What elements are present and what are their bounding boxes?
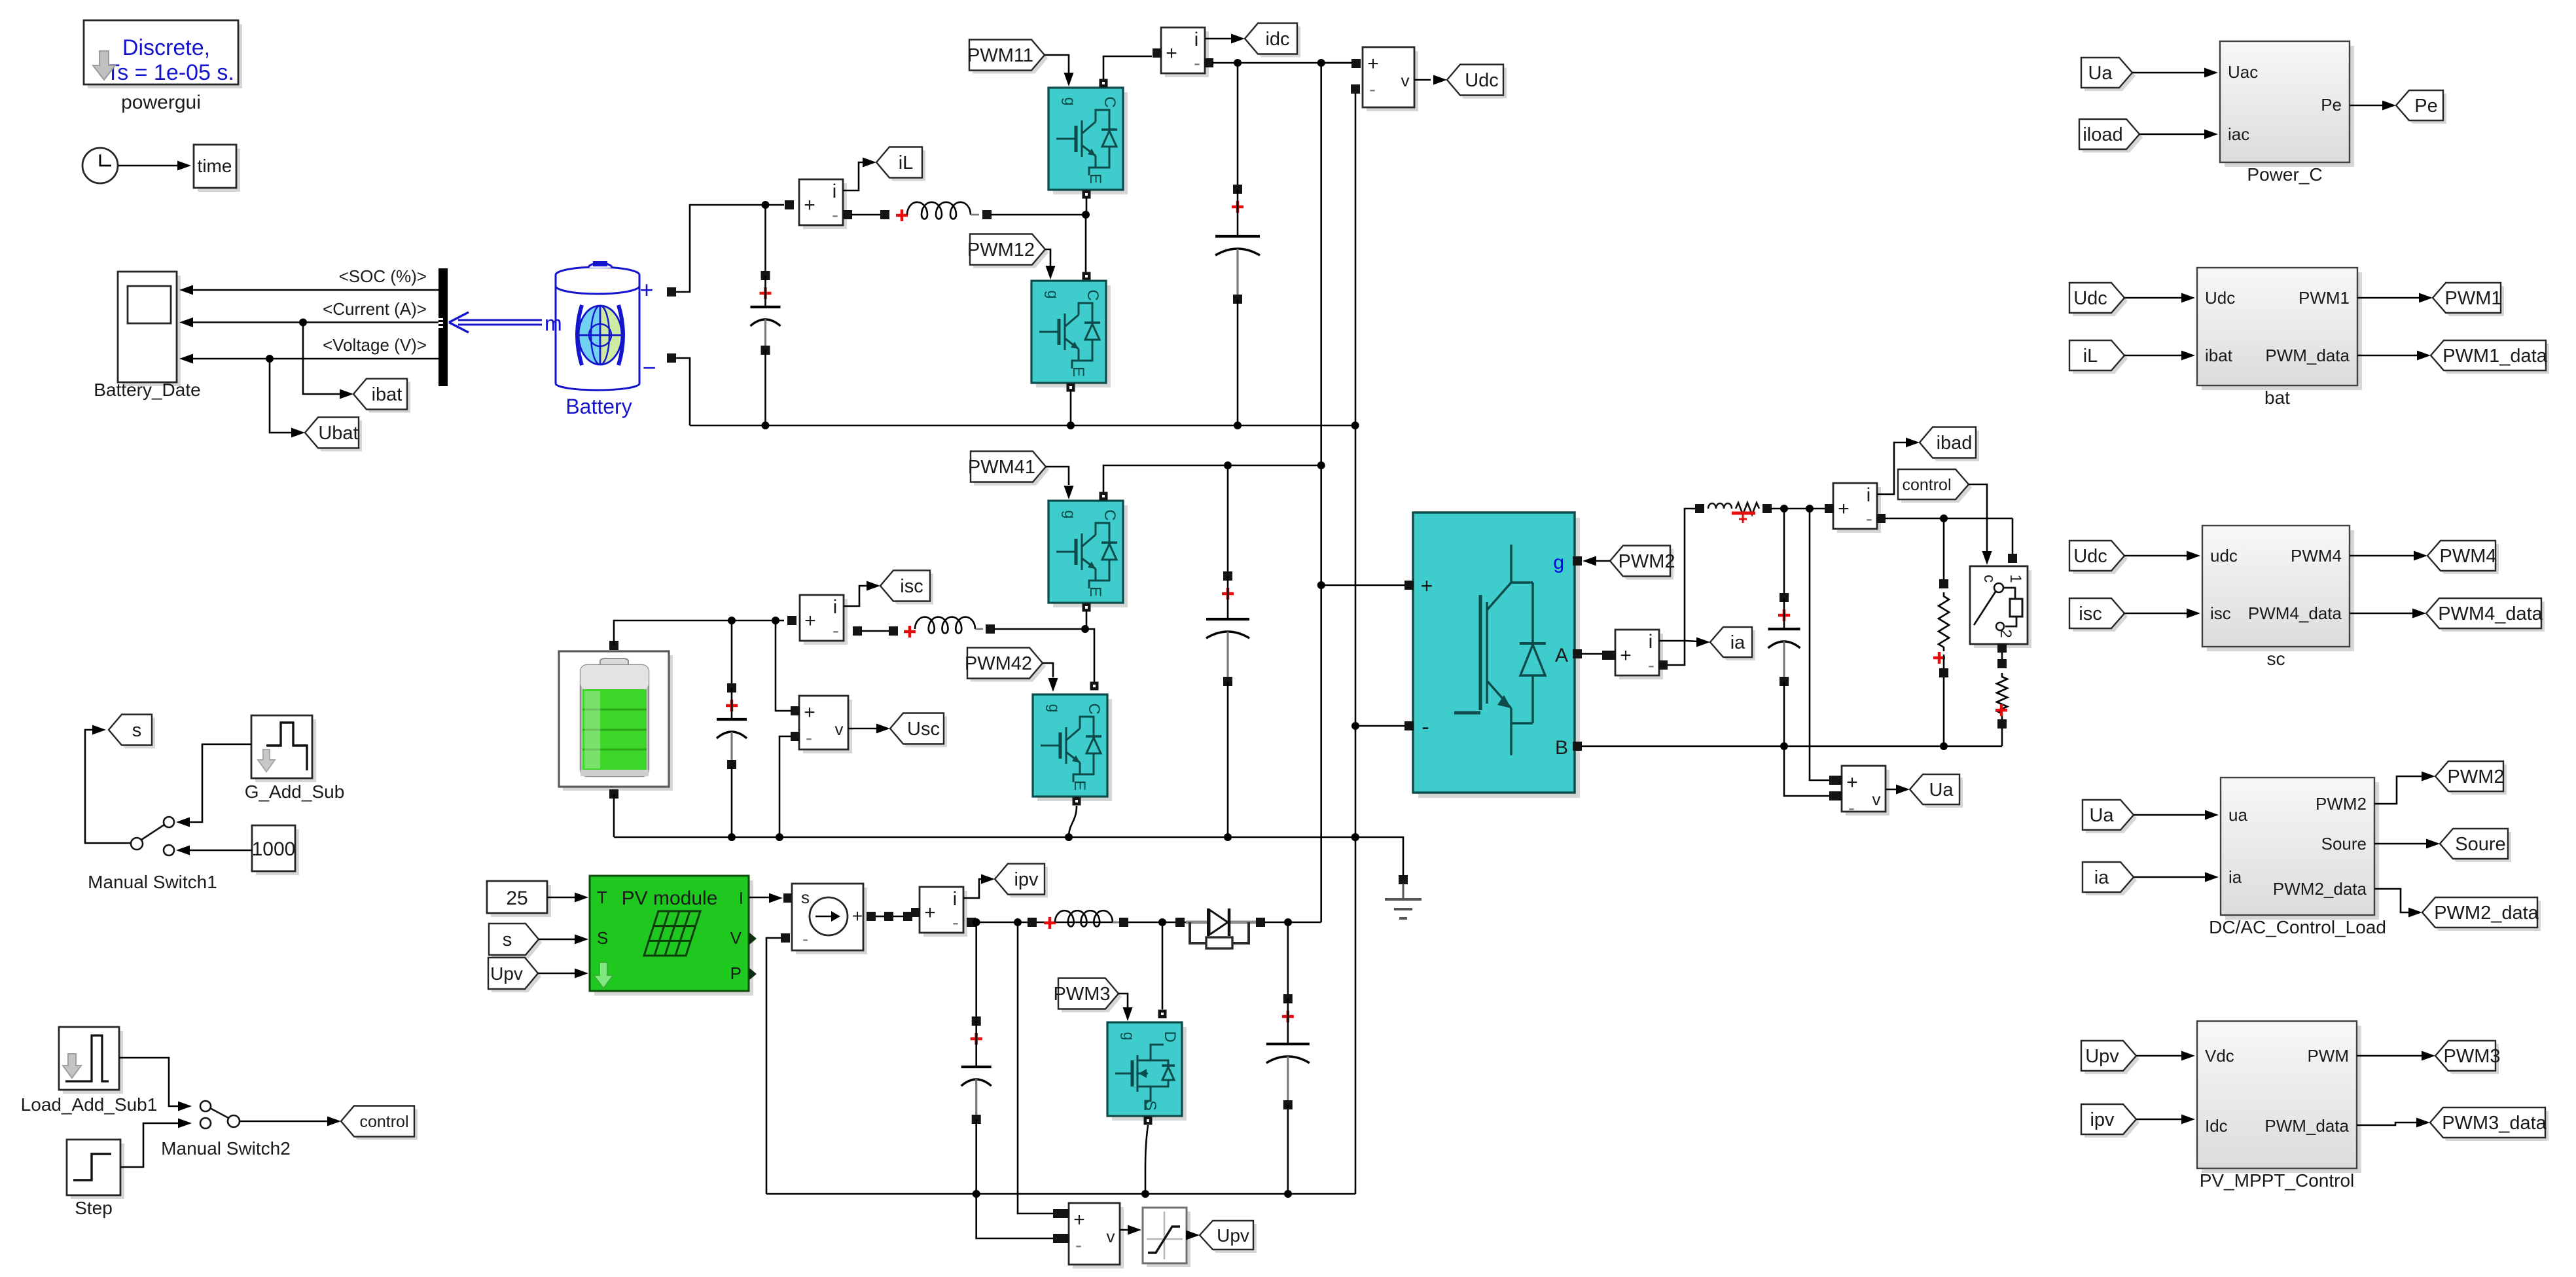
- subsystem sc: [2207, 530, 2354, 651]
- wire to Upv meas +: [1018, 922, 1054, 1214]
- wire source+ to ipv: [876, 916, 885, 918]
- from tag ipv: [998, 867, 1048, 898]
- from tag PWM12: [973, 238, 1048, 268]
- block Step: [71, 1143, 124, 1199]
- wire PWM3 out: [2357, 1055, 2424, 1057]
- svg-text:PWM4_data: PWM4_data: [2248, 603, 2342, 623]
- wire PWM2_data out: [2374, 889, 2411, 912]
- svg-text:PWM1: PWM1: [2299, 288, 2350, 308]
- IGBT Q2 (PWM12): [1036, 285, 1111, 387]
- from tag s: [492, 927, 542, 958]
- svg-text:PWM3: PWM3: [2444, 1046, 2501, 1067]
- svg-text:+: +: [1421, 574, 1433, 598]
- svg-text:+: +: [804, 702, 815, 723]
- capacitor C4 dc link 2: [1227, 465, 1229, 576]
- wire PWM42 gate: [1043, 663, 1053, 677]
- wire ia signal: [1659, 641, 1698, 641]
- port Q3 S: [1144, 1117, 1153, 1125]
- port Q42 C: [1090, 682, 1099, 691]
- wire L2 to midpoint2: [994, 628, 1085, 630]
- svg-text:PWM11: PWM11: [967, 45, 1033, 66]
- goto tag Pe: [2399, 94, 2446, 124]
- from tag iL (bat in): [2073, 344, 2128, 374]
- series RL load element: [1708, 503, 1732, 509]
- wire Q1 C to idc: [1103, 56, 1152, 79]
- svg-text:-: -: [1194, 52, 1200, 74]
- current source - port: [781, 933, 790, 943]
- svg-text:+: +: [852, 906, 863, 926]
- svg-text:-: -: [802, 929, 808, 949]
- goto tag Udc: [1450, 68, 1507, 99]
- pv bottom rail: [766, 1193, 1355, 1195]
- from tag PWM2: [1613, 549, 1673, 580]
- from tag PWM3: [1062, 982, 1122, 1013]
- svg-text:iL: iL: [899, 153, 914, 173]
- svg-text:ia: ia: [2094, 867, 2109, 888]
- inverter block (IGBT half-bridge): [1418, 518, 1580, 798]
- goto tag control: [344, 1109, 418, 1140]
- subsystem Power_C: [2225, 46, 2354, 167]
- svg-text:s: s: [503, 929, 512, 950]
- port Q2 C: [1082, 272, 1091, 281]
- current meas isc: [804, 599, 848, 645]
- svg-text:C: C: [1101, 509, 1118, 520]
- capacitor C6 pv output: [1287, 922, 1289, 999]
- diode D1: [1175, 918, 1185, 927]
- svg-text:-: -: [1369, 79, 1376, 100]
- goto tag Soure: [2443, 832, 2511, 862]
- wire PV I to source: [749, 897, 772, 898]
- voltage meas Ua: [1846, 770, 1889, 816]
- svg-text:25: 25: [506, 888, 528, 909]
- from tag Upv (mppt in): [2084, 1044, 2139, 1074]
- svg-text:1000: 1000: [252, 838, 296, 860]
- svg-text:PV module: PV module: [622, 888, 718, 909]
- svg-text:Discrete,: Discrete,: [122, 35, 210, 60]
- from tag Udc (bat in): [2073, 286, 2128, 316]
- wire Current to scope: [190, 321, 438, 323]
- svg-text:Usc: Usc: [907, 719, 940, 740]
- subsystem bat: [2202, 272, 2362, 390]
- svg-text:Udc: Udc: [2073, 546, 2107, 567]
- svg-text:G_Add_Sub: G_Add_Sub: [245, 782, 345, 802]
- capacitor C1 battery side: [764, 205, 766, 276]
- wire ipv to mppt: [2136, 1119, 2184, 1121]
- svg-text:bat: bat: [2264, 387, 2290, 408]
- wire battery+ to iL meas: [676, 205, 784, 292]
- block G_Add_Sub: [255, 719, 316, 782]
- port iload in: [1825, 504, 1834, 513]
- ground symbol: [1403, 884, 1404, 898]
- from tag ipv (mppt in): [2084, 1107, 2139, 1138]
- manual switch2: [200, 1101, 211, 1111]
- svg-text:A: A: [1555, 645, 1568, 666]
- svg-text:PWM2_data: PWM2_data: [2434, 903, 2539, 924]
- svg-text:PWM12: PWM12: [967, 240, 1035, 261]
- goto tag Ua: [1913, 778, 1963, 808]
- svg-text:i: i: [833, 596, 838, 618]
- wire Q2 E to bus1: [1070, 391, 1072, 425]
- svg-text:Manual Switch1: Manual Switch1: [88, 872, 217, 892]
- svg-text:+: +: [924, 902, 936, 924]
- wire Upv v to saturation: [1120, 1229, 1131, 1231]
- inductor L2: [915, 617, 975, 634]
- wire iload to iac: [2139, 134, 2207, 135]
- wire 25 to T: [547, 897, 577, 899]
- svg-text:v: v: [835, 719, 844, 739]
- wire midpoint to Q2 C: [1085, 215, 1087, 272]
- wire ipv signal: [963, 879, 982, 898]
- wire Q3 S to pv bottom rail: [1145, 1125, 1148, 1194]
- svg-text:PWM42: PWM42: [965, 653, 1032, 674]
- wire rail2 to Usc+: [776, 621, 791, 711]
- resistor R2 switched: [2001, 652, 2003, 660]
- IGBT Q4 (PWM41): [1053, 505, 1128, 607]
- svg-text:c: c: [1980, 575, 1998, 583]
- current source + port: [867, 912, 876, 921]
- svg-text:ia: ia: [2228, 867, 2242, 887]
- goto tag PWM2 (out): [2439, 764, 2507, 795]
- wire PWM2 out: [2374, 776, 2424, 804]
- svg-text:C: C: [1085, 703, 1103, 714]
- inverter g port: [1573, 556, 1582, 566]
- svg-text:PWM1: PWM1: [2445, 288, 2502, 309]
- wire rail to inverter +: [1321, 585, 1405, 586]
- svg-text:Udc: Udc: [2073, 288, 2107, 309]
- wire saturation to Upv tag: [1187, 1234, 1191, 1236]
- from tag Ua (dcac in): [2086, 803, 2137, 833]
- bus selector bar: [438, 268, 448, 386]
- svg-text:+: +: [804, 194, 815, 216]
- svg-text:m: m: [545, 312, 562, 335]
- svg-text:PWM4: PWM4: [2440, 546, 2497, 567]
- svg-text:V: V: [730, 928, 742, 948]
- wire Voltage to scope: [190, 358, 438, 360]
- wire Udc to sc: [2124, 555, 2189, 557]
- svg-text:Ubat: Ubat: [318, 423, 358, 444]
- wire Step to switch2: [120, 1123, 181, 1167]
- svg-text:ibat: ibat: [2205, 346, 2233, 365]
- wire midpoint2 to Q42 C: [1085, 629, 1094, 682]
- svg-text:iload: iload: [2083, 124, 2122, 145]
- svg-text:Battery_Date: Battery_Date: [94, 380, 200, 400]
- goto tag PWM2_data: [2425, 901, 2541, 931]
- svg-text:v: v: [1401, 71, 1410, 90]
- svg-text:T: T: [597, 888, 607, 907]
- from tag PWM41: [974, 455, 1049, 486]
- wire switch1 to s tag: [85, 730, 130, 843]
- svg-text:iac: iac: [2228, 124, 2249, 144]
- goto tag Upv: [1203, 1224, 1257, 1253]
- block Load_Add_Sub1: [63, 1031, 123, 1094]
- subsystem DC/AC_Control_Load: [2225, 782, 2379, 920]
- svg-text:−: −: [642, 354, 656, 381]
- from tag PWM42: [971, 651, 1046, 682]
- breaker out port: [1997, 643, 2007, 653]
- from tag control (load): [1901, 473, 1972, 503]
- wire isc- to inductor2: [861, 630, 893, 632]
- svg-text:i: i: [832, 181, 837, 202]
- wire 1000 to switch1: [188, 850, 252, 852]
- svg-text:+: +: [1073, 1209, 1085, 1231]
- wire Usc- to bus2: [779, 736, 791, 837]
- svg-text:+: +: [639, 276, 653, 303]
- inverter B port: [1573, 742, 1582, 751]
- wire iL signal: [843, 162, 864, 190]
- supercap block: [563, 655, 673, 791]
- svg-text:+: +: [1367, 53, 1379, 75]
- svg-text:-: -: [1422, 715, 1429, 740]
- wire LoadAddSub to switch2: [119, 1058, 181, 1106]
- svg-text:<SOC (%)>: <SOC (%)>: [339, 266, 427, 286]
- negative rail vertical right: [1355, 425, 1357, 1194]
- svg-text:ipv: ipv: [1014, 869, 1039, 890]
- svg-text:PWM2: PWM2: [2448, 766, 2505, 787]
- wire idc signal: [1205, 38, 1234, 40]
- current meas ia: [1619, 634, 1663, 679]
- wire rail to inverter -: [1355, 725, 1405, 727]
- powergui block: [88, 24, 242, 88]
- svg-text:I: I: [739, 888, 743, 908]
- wire Upv to mppt: [2136, 1055, 2184, 1057]
- svg-text:time: time: [198, 156, 232, 176]
- svg-text:i: i: [1649, 631, 1653, 653]
- current meas ipv: [923, 891, 967, 937]
- svg-text:Ts = 1e-05 s.: Ts = 1e-05 s.: [106, 60, 234, 85]
- svg-text:Vdc: Vdc: [2205, 1046, 2234, 1066]
- svg-text:g: g: [1045, 291, 1062, 299]
- from tag isc: [884, 574, 933, 605]
- svg-text:PWM2_data: PWM2_data: [2273, 879, 2367, 899]
- port Q1 E: [1082, 190, 1091, 199]
- red plus L3: [1044, 917, 1056, 929]
- svg-text:isc: isc: [2079, 603, 2102, 624]
- svg-text:B: B: [1555, 737, 1568, 759]
- svg-text:Idc: Idc: [2205, 1116, 2228, 1136]
- manual switch1: [131, 838, 143, 850]
- resistor R load: [1943, 518, 1945, 580]
- wire isc to sc: [2124, 613, 2189, 615]
- wire to Ua+: [1810, 509, 1830, 780]
- svg-text:+: +: [1166, 43, 1177, 64]
- MOSFET Q3 (PWM3): [1112, 1027, 1187, 1121]
- svg-text:g: g: [1062, 511, 1079, 519]
- svg-text:ua: ua: [2228, 805, 2247, 825]
- svg-text:i: i: [1867, 484, 1871, 506]
- svg-text:v: v: [1872, 789, 1881, 809]
- wire Q1 E to midpoint: [1086, 198, 1088, 215]
- wire Q4 C to rail 711: [1103, 465, 1321, 492]
- svg-text:-: -: [806, 727, 812, 749]
- block constant 1000: [256, 829, 299, 875]
- svg-text:isc: isc: [2210, 603, 2231, 623]
- svg-text:Ua: Ua: [2089, 805, 2114, 826]
- wire ia to dcac: [2134, 876, 2208, 878]
- svg-text:ibad: ibad: [1937, 433, 1973, 454]
- svg-text:s: s: [801, 888, 810, 907]
- svg-text:PWM1_data: PWM1_data: [2442, 346, 2547, 367]
- svg-text:<Voltage (V)>: <Voltage (V)>: [323, 335, 427, 355]
- IGBT Q1 (PWM11): [1053, 92, 1128, 194]
- svg-text:-: -: [1848, 797, 1855, 819]
- clock block: [82, 148, 118, 183]
- svg-text:Ua: Ua: [2088, 63, 2113, 84]
- svg-text:D: D: [1161, 1031, 1179, 1042]
- svg-text:PWM3_data: PWM3_data: [2442, 1113, 2547, 1134]
- capacitor C3 supercap side: [731, 621, 733, 688]
- svg-text:C: C: [1101, 96, 1118, 107]
- goto tag PWM3_data: [2433, 1111, 2549, 1141]
- svg-text:PWM4: PWM4: [2291, 546, 2342, 566]
- goto tag PWM1: [2436, 286, 2504, 316]
- wire idc- to rail: [1213, 62, 1352, 64]
- port Q42 E: [1073, 797, 1081, 806]
- wire PWM2 to g: [1592, 560, 1610, 562]
- svg-text:Upv: Upv: [2085, 1046, 2119, 1067]
- capacitor C7 ac filter: [1783, 509, 1785, 598]
- wire B to Ua-: [1784, 746, 1830, 796]
- svg-text:-: -: [952, 912, 959, 933]
- supercap top port: [609, 641, 618, 650]
- goto tag ibad: [1923, 431, 1979, 461]
- battery m signal: [458, 319, 542, 321]
- svg-text:P: P: [730, 963, 742, 983]
- wire PWM1 out: [2357, 297, 2422, 299]
- wire PWM4_data out: [2350, 613, 2415, 615]
- from tag PWM11: [973, 43, 1048, 74]
- svg-text:s: s: [132, 720, 142, 741]
- wire PWM11 gate: [1045, 55, 1069, 73]
- svg-text:Manual Switch2: Manual Switch2: [161, 1138, 291, 1159]
- svg-text:Power_C: Power_C: [2247, 164, 2322, 185]
- wire iL- to inductor: [851, 214, 885, 216]
- svg-text:<Current (A)>: <Current (A)>: [323, 299, 427, 319]
- wire Ua to dcac: [2134, 814, 2208, 816]
- wire PWM41 gate: [1046, 467, 1069, 485]
- svg-text:-: -: [832, 620, 839, 641]
- battery + port: [667, 287, 676, 297]
- wire iL to bat: [2124, 355, 2184, 357]
- bus2 negative rail: [614, 836, 1355, 838]
- goto tag s: [112, 718, 155, 749]
- svg-text:PWM: PWM: [2307, 1046, 2349, 1066]
- svg-text:ia: ia: [1730, 632, 1745, 653]
- svg-text:ibat: ibat: [372, 384, 402, 405]
- goto tag PWM3: [2439, 1044, 2499, 1074]
- svg-text:Load_Add_Sub1: Load_Add_Sub1: [21, 1094, 158, 1115]
- from tag Ua (PowerC in): [2084, 61, 2136, 91]
- wire battery- to bus1: [676, 358, 690, 425]
- svg-text:udc: udc: [2210, 546, 2238, 566]
- goto tag PWM1_data: [2434, 344, 2549, 374]
- svg-text:sc: sc: [2267, 649, 2285, 669]
- current meas iL: [803, 183, 847, 229]
- svg-text:DC/AC_Control_Load: DC/AC_Control_Load: [2209, 917, 2386, 937]
- wire Pe out: [2350, 105, 2385, 107]
- goto tag ia: [1713, 630, 1755, 660]
- from tag ia (dcac in): [2086, 865, 2137, 895]
- svg-text:PWM2: PWM2: [1619, 551, 1675, 572]
- wire PWM4 out: [2350, 555, 2416, 557]
- subsystem PV_MPPT_Control: [2202, 1026, 2361, 1173]
- port RL left: [1695, 504, 1704, 513]
- from tag Udc (sc in): [2073, 544, 2128, 574]
- svg-text:g: g: [1046, 704, 1063, 713]
- port Q4 C: [1100, 492, 1108, 501]
- wire PWM3 gate: [1118, 994, 1128, 1008]
- svg-text:-: -: [832, 204, 838, 226]
- svg-text:PWM4_data: PWM4_data: [2438, 603, 2543, 624]
- voltage meas Udc: [1367, 51, 1418, 111]
- wire clock to time: [118, 165, 186, 167]
- svg-text:control: control: [359, 1113, 408, 1131]
- svg-text:Pe: Pe: [2321, 95, 2342, 115]
- svg-text:iL: iL: [2083, 346, 2098, 367]
- wire L1 to midpoint: [991, 214, 1086, 216]
- svg-text:v: v: [1107, 1227, 1115, 1246]
- scope Battery_Date: [122, 276, 181, 386]
- svg-text:PWM41: PWM41: [968, 457, 1035, 478]
- wire Ua signal: [1886, 789, 1897, 791]
- svg-text:Upv: Upv: [1217, 1225, 1249, 1246]
- wire Upv to P-in: [538, 973, 577, 975]
- goto tag Ubat: [308, 421, 362, 452]
- svg-text:isc: isc: [900, 576, 923, 597]
- bus1 negative rail: [690, 425, 1355, 427]
- from tag isc (sc in): [2073, 602, 2128, 632]
- wire Ua to Uac: [2132, 72, 2207, 74]
- B phase line: [1581, 746, 2002, 747]
- svg-text:g: g: [1553, 552, 1564, 573]
- from tag Upv (input): [492, 961, 541, 992]
- svg-text:-: -: [1866, 508, 1872, 530]
- battery block icon: [556, 275, 639, 390]
- current meas idc: [1165, 31, 1209, 77]
- svg-text:-: -: [1075, 1234, 1082, 1256]
- inverter A port: [1573, 649, 1582, 658]
- svg-text:PWM_data: PWM_data: [2265, 346, 2350, 365]
- wire G_Add_Sub to switch1: [188, 744, 251, 822]
- supercap bottom port: [609, 789, 618, 799]
- wire control to breaker: [1969, 484, 1987, 553]
- svg-text:PWM_data: PWM_data: [2264, 1116, 2349, 1136]
- svg-text:Upv: Upv: [490, 963, 523, 984]
- constant block 25: [491, 885, 551, 917]
- voltage meas Upv: [1073, 1207, 1124, 1268]
- wire A to ia meas: [1581, 654, 1611, 655]
- wire PWM3_data out: [2357, 1123, 2419, 1125]
- capacitor C2 dc link: [1237, 63, 1239, 189]
- time block: [198, 149, 240, 192]
- breaker block: [1974, 570, 2031, 648]
- wire switch2 to control: [240, 1121, 330, 1123]
- inverter + port: [1404, 581, 1414, 590]
- port RL right: [1762, 504, 1772, 513]
- inductor L1: [907, 202, 971, 219]
- wire isc signal: [844, 586, 868, 606]
- svg-text:1: 1: [2007, 574, 2024, 583]
- svg-text:g: g: [1120, 1032, 1137, 1041]
- saturation block: [1147, 1212, 1190, 1267]
- svg-text:Ua: Ua: [1929, 780, 1954, 800]
- svg-text:Udc: Udc: [1465, 70, 1499, 91]
- goto tag Usc: [893, 717, 947, 747]
- svg-text:control: control: [1902, 476, 1951, 494]
- svg-text:Battery: Battery: [565, 395, 632, 418]
- svg-text:+: +: [804, 610, 816, 632]
- wire Usc signal: [848, 728, 878, 730]
- svg-text:PWM3: PWM3: [1054, 984, 1111, 1005]
